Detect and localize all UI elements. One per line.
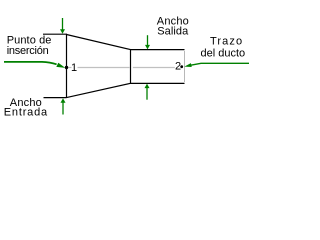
wire leader to insertion point label <box>43 33 67 35</box>
duct joint <box>130 49 132 84</box>
svg-text:2: 2 <box>175 61 181 73</box>
node 1 dot <box>65 66 68 69</box>
green arrow outlet bottom <box>145 84 150 100</box>
duct inlet edge <box>66 34 68 98</box>
duct centerline <box>68 67 72 69</box>
duct open end tick <box>184 51 186 82</box>
wire leader to inlet width label <box>44 97 67 99</box>
green arrow inlet top <box>60 18 65 34</box>
svg-text:Salida: Salida <box>157 25 189 37</box>
green leader from insertion point text to node 1 <box>4 62 65 68</box>
svg-text:inserción: inserción <box>7 45 49 57</box>
green arrow inlet bottom <box>61 98 66 114</box>
svg-text:Trazo: Trazo <box>210 36 243 48</box>
node 2 dot <box>180 65 183 68</box>
svg-text:Entrada: Entrada <box>4 106 48 118</box>
svg-text:1: 1 <box>71 62 77 74</box>
duct transition bottom slope <box>67 83 131 97</box>
duct top wall <box>131 49 185 51</box>
svg-text:del ducto: del ducto <box>201 47 246 59</box>
duct bottom wall <box>131 82 185 84</box>
green leader from duct stroke text to node 2 <box>184 63 249 67</box>
duct transition top slope <box>67 35 131 50</box>
green arrow outlet top <box>145 35 150 49</box>
